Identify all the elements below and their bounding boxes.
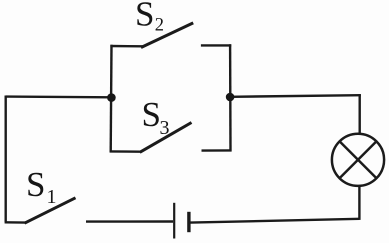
- wire stub to switch S1 pivot: [5, 221, 26, 224]
- wire bottom right (battery to lamp): [191, 219, 360, 223]
- wire right vertical upper (top wire to lamp): [359, 94, 361, 134]
- lamp L1 cross stroke 1: [340, 141, 377, 178]
- svg-text:3: 3: [160, 117, 170, 139]
- wire S3 branch left segment: [110, 150, 141, 153]
- node B junction dot: [226, 93, 235, 102]
- lamp L1 cross stroke 2: [340, 141, 377, 178]
- wire left vertical: [4, 96, 6, 223]
- switch S1 blade (open): [25, 198, 76, 223]
- wire top right horizontal (node B to right vertical): [230, 95, 361, 97]
- lamp L1 circle: [332, 134, 384, 186]
- wire parallel-branch left vertical: [109, 45, 112, 152]
- wire right vertical lower (lamp to bottom wire): [358, 186, 360, 220]
- wire parallel-branch right vertical: [229, 44, 232, 151]
- svg-text:2: 2: [155, 16, 164, 36]
- svg-text:S: S: [135, 0, 154, 34]
- wire S3 branch right segment: [202, 149, 232, 152]
- switch S3 blade (open): [140, 123, 192, 153]
- switch S2 blade (open): [141, 23, 193, 48]
- wire S2 branch left segment: [110, 45, 142, 48]
- svg-text:S: S: [26, 165, 45, 204]
- node A junction dot: [107, 93, 116, 102]
- battery B1 positive plate (long): [173, 203, 175, 239]
- battery B1 negative plate (short thick): [187, 212, 190, 232]
- svg-text:1: 1: [47, 186, 57, 208]
- wire left horizontal (left edge to node A): [6, 95, 112, 98]
- wire bottom left (S1 to battery): [86, 220, 173, 223]
- wire S2 branch right segment: [201, 44, 231, 46]
- svg-text:S: S: [142, 95, 161, 134]
